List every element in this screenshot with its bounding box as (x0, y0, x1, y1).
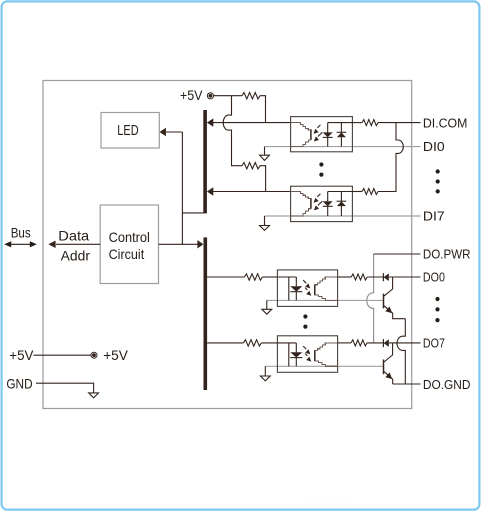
isolation bar (input side) (203, 110, 207, 213)
ellipsis dots (input labels) (436, 169, 440, 193)
wire DI0 (gray) from ground stub through optos to label (265, 146, 421, 148)
wire R8 to diode D2 (367, 342, 383, 344)
arrow into output bar (197, 240, 203, 248)
wire output bar to resistor R7 (DO7 row) (207, 342, 243, 344)
wire output bar to resistor R5 (DO0 row) (207, 276, 244, 278)
resistor R8 (351, 340, 367, 346)
svg-text:Control: Control (109, 229, 150, 245)
svg-text:DI0: DI0 (423, 139, 445, 154)
wire DI7 (gray) from ground stub to label (265, 215, 421, 217)
svg-text:DI.COM: DI.COM (423, 115, 468, 130)
resistor R5 (244, 274, 262, 280)
isolation bar (output side) (204, 237, 208, 390)
svg-text:LED: LED (117, 123, 138, 139)
resistor R4 (362, 189, 378, 195)
optocoupler U1 (input, DI0) (291, 117, 353, 152)
DO.PWR rail (gray) with hop over Q1 base (367, 254, 374, 343)
wire DO.PWR to label (374, 253, 421, 255)
wire GND to ground symbol (36, 383, 94, 393)
wire R1 down to DI.COM feed (260, 96, 266, 123)
svg-text:DO.PWR: DO.PWR (423, 247, 471, 262)
wire Q1 emitter down to DO.GND with hop over DO7 (397, 319, 405, 384)
wire U2 to resistor R4 (352, 191, 362, 193)
wire R5 to U3 (262, 276, 277, 278)
svg-text:DI7: DI7 (423, 209, 445, 224)
svg-text:Addr: Addr (61, 248, 91, 263)
wire R7 to U4 (261, 342, 277, 344)
wire LED to isolation bar (166, 132, 204, 244)
resistor R3 (362, 120, 378, 126)
wire DI.COM down to DI7 row with hop over DI0 (378, 123, 403, 192)
svg-text:Data: Data (58, 228, 89, 243)
ground G1 (260, 147, 270, 161)
wire Q1 base (gray) from ground stub through U3 (267, 299, 383, 301)
wire D2 to DO7 label (389, 342, 421, 344)
wire +5V to terminal (34, 354, 92, 356)
resistor R1 (242, 93, 260, 99)
optocoupler U4 (output, DO7) (277, 336, 337, 373)
+5V terminal (left) (91, 352, 97, 358)
wire bar to optocoupler U1 row (DI.COM collector rail) (212, 122, 291, 124)
wire U1 to resistor R3 (352, 122, 362, 124)
svg-text:DO.GND: DO.GND (423, 377, 471, 392)
wire R2 to DI7 row (260, 166, 266, 192)
ellipsis dots (output labels) (435, 297, 439, 322)
svg-text:Bus: Bus (11, 225, 31, 240)
wire Q2 base (gray) from ground stub through U4 (265, 365, 383, 367)
LED box (101, 113, 159, 149)
resistor R2 (242, 163, 260, 169)
control circuit box U5 (100, 205, 158, 284)
optocoupler U2 (input, DI7) (291, 186, 353, 221)
wire bus bidirectional arrow (4, 241, 37, 247)
svg-text:+5V: +5V (9, 348, 34, 363)
module enclosure box (43, 81, 412, 409)
transistor Q2 (384, 343, 393, 384)
svg-text:DO7: DO7 (423, 336, 445, 351)
wire data/addr arrow into control circuit (48, 241, 100, 248)
arrow into LED box (160, 128, 166, 136)
resistor R6 (351, 274, 367, 280)
ground G3 (262, 300, 272, 314)
resistor R7 (243, 340, 261, 346)
svg-text:capture: capture (303, 490, 353, 507)
wire R3 to DI.COM label (378, 122, 421, 124)
wire +5V drop with hop to R2 (223, 96, 242, 166)
wire U3 to resistor R6 (338, 276, 352, 278)
svg-text:+5V: +5V (180, 88, 203, 103)
ground G2 (260, 216, 270, 230)
arrow into input bar (row 2) (207, 187, 213, 195)
transistor Q1 (384, 277, 406, 319)
arrow into input bar (row 1) (207, 118, 213, 126)
ellipsis dots (between U1 and U2) (319, 162, 323, 176)
ellipsis dots (between U3 and U4) (303, 314, 307, 328)
svg-text:+5V: +5V (103, 348, 129, 363)
wire +5V to resistor R1 (213, 95, 242, 97)
wire bar to optocoupler U2 row (DI7 collector rail) (212, 191, 291, 193)
ground G5 (89, 393, 99, 398)
wire U4 to resistor R8 (338, 342, 351, 344)
diode D1 (383, 273, 388, 281)
svg-text:GND: GND (6, 376, 32, 391)
wire R6 to diode D1 (367, 276, 383, 278)
wire D1 to DO0 label (389, 276, 421, 278)
wire control circuit to output bar (159, 243, 199, 245)
+5V terminal (top) (180, 88, 213, 103)
diode D2 (383, 339, 388, 347)
optocoupler U3 (output, DO0) (277, 270, 337, 307)
ground G4 (260, 366, 270, 381)
svg-text:DO0: DO0 (423, 269, 445, 284)
svg-text:Circuit: Circuit (109, 246, 145, 262)
wire DO.GND to label (393, 383, 421, 385)
